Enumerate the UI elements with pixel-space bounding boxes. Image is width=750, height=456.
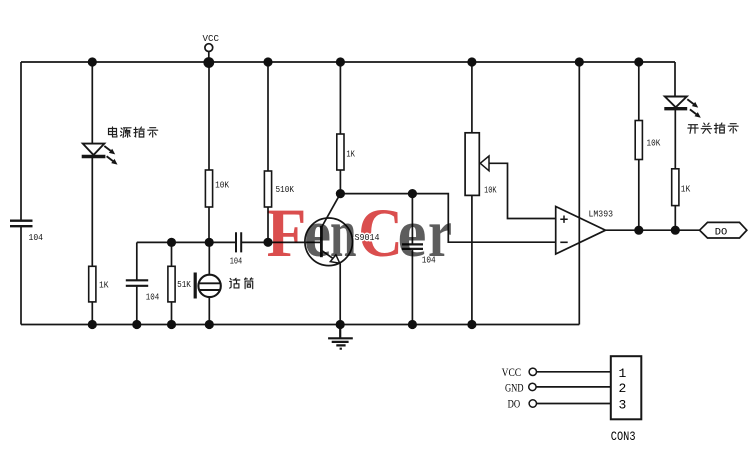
node rail j7 bbox=[467, 320, 476, 329]
wire emitter to rail bbox=[339, 264, 341, 325]
wire top VCC rail bbox=[21, 61, 675, 63]
svg-text:1: 1 bbox=[619, 366, 627, 381]
LED D2 light arrow 2 bbox=[690, 109, 701, 117]
svg-text:e: e bbox=[398, 195, 427, 271]
wire LED1 to R1 bbox=[91, 158, 93, 266]
svg-text:LM393: LM393 bbox=[589, 209, 614, 220]
LED D2 cathode bar bbox=[664, 107, 687, 110]
wire bottom ground rail bbox=[21, 324, 579, 326]
node C4 j bbox=[408, 189, 417, 198]
svg-text:1K: 1K bbox=[346, 149, 355, 160]
wire VCC terminal stub bbox=[208, 52, 210, 63]
svg-text:e: e bbox=[304, 195, 331, 271]
resistor R3 10K body bbox=[205, 170, 212, 207]
svg-text:3: 3 bbox=[619, 398, 627, 413]
wire 51K top stub bbox=[171, 242, 173, 266]
wire LED1 column upper bbox=[91, 62, 93, 143]
capacitor C2 104 plates bbox=[126, 280, 148, 286]
svg-text:S9014: S9014 bbox=[355, 232, 380, 243]
wire mic node horizontal bbox=[137, 241, 236, 243]
label 开关指示 switch indicator bbox=[688, 123, 738, 133]
svg-text:CON3: CON3 bbox=[611, 430, 636, 444]
LED D1 light arrow 1 bbox=[104, 146, 115, 154]
wire R1 to rail bbox=[91, 302, 93, 325]
LED D2 light arrow 1 bbox=[687, 99, 698, 107]
resistor R2 51K body bbox=[168, 266, 175, 302]
connector CON3 box bbox=[611, 356, 642, 419]
svg-text:104: 104 bbox=[146, 292, 160, 303]
transistor Q1 collector bbox=[321, 194, 340, 228]
wire LED2 to R7 bbox=[674, 110, 676, 169]
wire R4 to base node bbox=[267, 207, 269, 242]
svg-text:F: F bbox=[267, 195, 307, 271]
wire mid-left elbow bbox=[136, 242, 138, 280]
wire R7 to output bbox=[674, 206, 676, 231]
label 话筒 microphone bbox=[230, 278, 253, 289]
wire collector node to comparator bbox=[340, 194, 555, 243]
wire op-amp supply vertical bbox=[578, 62, 580, 325]
node mic net j1 bbox=[167, 238, 176, 247]
port DO tag bbox=[700, 222, 747, 238]
microphone MK1 plate bar bbox=[194, 273, 197, 299]
resistor R6 10K body bbox=[635, 121, 642, 160]
resistor R4 510K body bbox=[264, 171, 271, 207]
resistor R7 1K body bbox=[672, 169, 679, 206]
svg-text:1K: 1K bbox=[681, 183, 691, 194]
svg-text:2: 2 bbox=[619, 381, 627, 396]
node rail j1 bbox=[88, 320, 97, 329]
wire pot to rail bbox=[471, 195, 473, 324]
LED D1 triangle bbox=[83, 144, 105, 155]
potentiometer RP1 body bbox=[465, 133, 479, 196]
wire mic to rail bbox=[208, 296, 210, 324]
node pin1 circle bbox=[529, 368, 536, 375]
wire comparator output bbox=[606, 229, 700, 231]
transistor Q1 base bar bbox=[320, 226, 323, 257]
transistor Q1 emitter bbox=[321, 250, 339, 263]
node rail j6 bbox=[408, 320, 417, 329]
capacitor C3 104 plates bbox=[236, 232, 241, 252]
label 电源指示 power indicator bbox=[109, 127, 158, 138]
svg-text:10K: 10K bbox=[647, 138, 661, 149]
ground symbol bbox=[328, 325, 353, 349]
node top rail j5 bbox=[467, 57, 476, 66]
node base j bbox=[263, 238, 272, 247]
LED D1 cathode bar bbox=[82, 155, 106, 158]
microphone MK1 circle bbox=[198, 275, 220, 297]
wire CON3 pin3 bbox=[537, 403, 611, 405]
capacitor C1 104 left plates bbox=[10, 221, 33, 227]
op-amp U1 minus sign bbox=[560, 241, 567, 243]
node pin3 circle bbox=[529, 400, 536, 407]
wire CON3 pin1 bbox=[537, 371, 611, 373]
wire R3 column upper bbox=[208, 62, 210, 170]
wire base node to transistor bbox=[241, 241, 320, 243]
node mic net j2 bbox=[205, 238, 214, 247]
LED D1 light arrow 2 bbox=[107, 156, 118, 164]
op-amp U1 LM393 triangle bbox=[556, 207, 606, 255]
watermark FenCer bbox=[267, 195, 453, 271]
wire LED2 column upper bbox=[674, 62, 676, 96]
svg-text:104: 104 bbox=[230, 255, 243, 266]
svg-text:510K: 510K bbox=[276, 184, 295, 195]
svg-text:51K: 51K bbox=[177, 279, 191, 290]
svg-text:GND: GND bbox=[505, 380, 524, 394]
LED D2 triangle bbox=[665, 97, 687, 108]
node top rail j3 bbox=[263, 57, 272, 66]
wire R3 to mic node bbox=[208, 207, 210, 242]
capacitor C4 104 plates bbox=[402, 244, 423, 249]
node pin2 circle bbox=[529, 383, 536, 390]
wire 51K to rail bbox=[171, 302, 173, 325]
wire left branch lower bbox=[20, 227, 22, 325]
node rail j2 bbox=[132, 320, 141, 329]
node output j1 bbox=[634, 226, 643, 235]
node output j2 bbox=[671, 226, 680, 235]
resistor R1 1K body bbox=[89, 266, 96, 302]
wire CON3 pin2 bbox=[536, 386, 611, 388]
node top rail j6 bbox=[575, 57, 584, 66]
svg-text:r: r bbox=[428, 195, 452, 271]
node top rail j4 bbox=[336, 57, 345, 66]
svg-text:10K: 10K bbox=[484, 184, 497, 195]
wire C4 top stub bbox=[411, 194, 413, 244]
wire mic top stub bbox=[208, 242, 210, 276]
potentiometer RP1 wiper arrow bbox=[480, 156, 489, 171]
svg-text:n: n bbox=[330, 195, 357, 271]
wire R5 column upper bbox=[339, 62, 341, 134]
wire C2 to rail bbox=[136, 287, 138, 325]
node rail j4 bbox=[205, 320, 214, 329]
wire left branch down bbox=[20, 62, 22, 220]
resistor R5 1K body bbox=[337, 134, 344, 170]
svg-text:VCC: VCC bbox=[502, 365, 521, 379]
node top rail j1 bbox=[88, 57, 97, 66]
node VCC terminal circle bbox=[205, 44, 213, 52]
svg-text:VCC: VCC bbox=[203, 33, 220, 44]
wire R4 column upper bbox=[267, 62, 269, 171]
svg-text:104: 104 bbox=[29, 232, 44, 243]
wire C4 to rail bbox=[411, 250, 413, 325]
node rail j5 bbox=[336, 320, 345, 329]
wire R6 column upper bbox=[638, 62, 640, 121]
microphone MK1 inner lines bbox=[199, 283, 219, 290]
wire R5 to collector node bbox=[339, 170, 341, 194]
svg-text:DO: DO bbox=[508, 397, 521, 411]
node rail j3 bbox=[167, 320, 176, 329]
node collector j bbox=[336, 189, 345, 198]
node top rail j7 bbox=[634, 57, 643, 66]
wire wiper to comparator plus bbox=[489, 163, 556, 218]
svg-text:DO: DO bbox=[715, 227, 728, 239]
op-amp U1 plus sign bbox=[560, 216, 567, 223]
svg-text:10K: 10K bbox=[215, 180, 229, 191]
wire pot column upper bbox=[471, 62, 473, 133]
wire R6 to output bbox=[638, 160, 640, 231]
node top rail VCC junction bbox=[203, 57, 214, 68]
svg-text:1K: 1K bbox=[99, 279, 109, 290]
transistor Q1 circle bbox=[305, 218, 353, 266]
